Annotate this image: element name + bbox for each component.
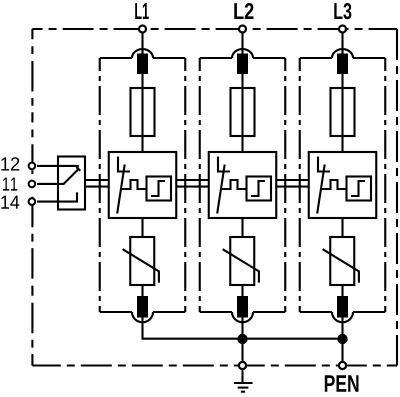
wire disconnector through backup fuse to trigger unit [141, 74, 143, 153]
terminal L1 [139, 26, 146, 33]
ground terminal [239, 362, 246, 369]
trigger pulse box phase 2 [247, 177, 272, 201]
terminal 11 [29, 181, 36, 188]
trigger signal step wire phase 2 [221, 180, 247, 189]
wire varistor to bottom disconnector phase 3 [341, 285, 343, 296]
PE bus wire phase 1 elbow to phase 3 [143, 318, 343, 339]
wire terminal 14 and open contact [37, 192, 77, 201]
backup fuse phase 2 [231, 88, 255, 136]
switch fixed contact phase 3 [318, 157, 330, 172]
trigger signal step wire phase 3 [321, 180, 347, 189]
wire trigger unit to varistor phase 3 [341, 218, 343, 237]
label L3 [334, 3, 342, 19]
junction dot phase 3 bus [337, 334, 347, 344]
label 14 [1, 196, 9, 209]
terminal L3 [339, 26, 346, 33]
plug-in connection arc top phase 1 [132, 49, 153, 58]
switch blade phase 1 [117, 165, 125, 214]
trigger/monitoring unit box phase 1 [109, 152, 177, 218]
trigger pulse box phase 3 [347, 177, 372, 201]
label 12 [1, 157, 9, 170]
wire L3 terminal to thermal disconnector [341, 34, 343, 54]
wire phase 3 to bus and PEN terminal [341, 318, 343, 366]
switch fixed contact phase 1 [118, 157, 130, 172]
varistor phase 2 [223, 237, 259, 285]
contact 12 tick [76, 167, 80, 171]
junction dot phase 2 bus [237, 334, 247, 344]
wire terminal 12 to contact [37, 166, 78, 170]
plug-in connection arc bottom phase 1 [132, 312, 153, 322]
device enclosure border (dash-dot) [32, 29, 397, 366]
wire disconnector through backup fuse to trigger unit [241, 74, 243, 153]
plug-in connection arc bottom phase 3 [332, 312, 353, 322]
module boundary phase 3 (dash-dot box) [300, 58, 386, 312]
varistor phase 1 [123, 237, 159, 285]
bottom disconnector contact phase 3 [337, 296, 348, 318]
thermal disconnector phase 1 [137, 54, 148, 75]
thermal disconnector phase 3 [337, 54, 348, 75]
trigger/monitoring unit box phase 2 [209, 152, 277, 218]
earth ground symbol [234, 370, 253, 391]
varistor phase 3 [323, 237, 359, 285]
wire terminal 11 to blade [37, 183, 65, 185]
mechanical coupling double line phase 2 to phase 3 [276, 180, 309, 187]
label PEN [325, 375, 335, 392]
wire varistor to bottom disconnector phase 2 [241, 285, 243, 296]
terminal 14 [29, 198, 36, 205]
backup fuse phase 3 [331, 88, 355, 136]
wire L1 terminal to thermal disconnector [141, 34, 143, 54]
mechanical coupling double line FM to phase 1 [85, 180, 109, 187]
module boundary phase 1 (dash-dot box) [100, 58, 186, 312]
pulse step symbol phase 2 [251, 181, 265, 196]
trigger pulse box phase 1 [147, 177, 172, 201]
module boundary phase 2 (dash-dot box) [200, 58, 286, 312]
bottom disconnector contact phase 1 [137, 296, 148, 318]
bottom disconnector contact phase 2 [237, 296, 248, 318]
changeover blade (common 11) [64, 170, 78, 184]
plug-in connection arc bottom phase 2 [232, 312, 253, 322]
wire disconnector through backup fuse to trigger unit [341, 74, 343, 153]
switch fixed contact phase 2 [218, 157, 230, 172]
label L2 [234, 3, 243, 19]
trigger/monitoring unit box phase 3 [309, 152, 377, 218]
trigger signal step wire phase 1 [121, 180, 147, 189]
terminal L2 [239, 26, 246, 33]
wire phase 2 to bus and ground terminal [241, 318, 243, 366]
plug-in connection arc top phase 3 [332, 49, 353, 58]
PEN terminal [339, 362, 346, 369]
wire trigger unit to varistor phase 2 [241, 218, 243, 237]
pulse step symbol phase 3 [351, 181, 365, 196]
wire L2 terminal to thermal disconnector [241, 34, 243, 54]
plug-in connection arc top phase 2 [232, 49, 253, 58]
label 11 [3, 178, 9, 191]
mechanical coupling double line phase 1 to phase 2 [176, 180, 209, 187]
wire trigger unit to varistor phase 1 [141, 218, 143, 237]
wire varistor to bottom disconnector phase 1 [141, 285, 143, 296]
thermal disconnector phase 2 [237, 54, 248, 75]
remote signalling changeover contact box [58, 157, 85, 210]
switch blade phase 3 [317, 165, 325, 214]
switch blade phase 2 [217, 165, 225, 214]
terminal 12 [29, 163, 36, 170]
backup fuse phase 1 [131, 88, 155, 136]
pulse step symbol phase 1 [151, 181, 165, 196]
label L1 [135, 3, 141, 19]
